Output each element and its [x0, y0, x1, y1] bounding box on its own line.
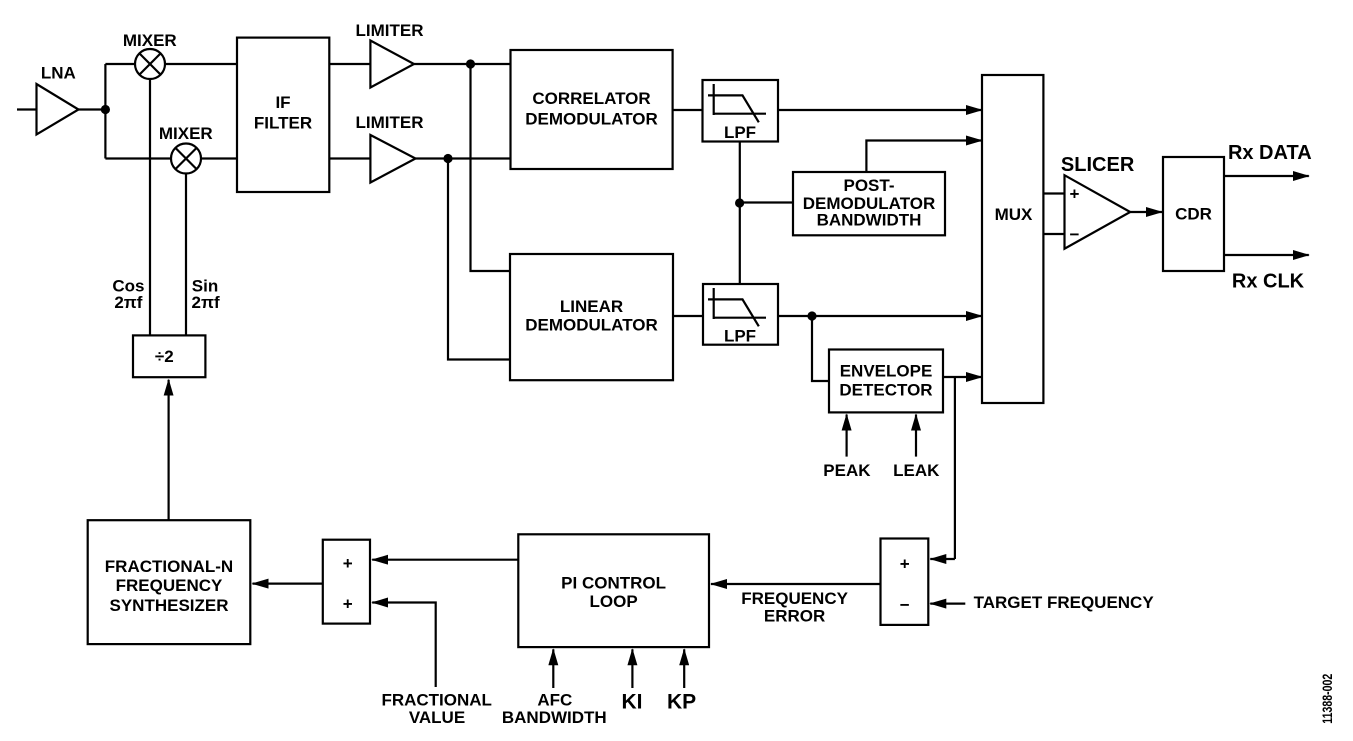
svg-text:BANDWIDTH: BANDWIDTH — [502, 708, 607, 727]
svg-text:2πf: 2πf — [192, 293, 220, 312]
label FRACTIONAL VALUE — [381, 691, 491, 727]
label Rx CLK — [1232, 271, 1305, 293]
block CORRELATOR DEMODULATOR — [511, 50, 673, 169]
wire limiter2 to correlator — [416, 157, 511, 159]
svg-text:AFC: AFC — [537, 691, 572, 710]
wire MUX to slicer minus input — [1043, 233, 1064, 235]
wire envelope detector to MUX — [943, 376, 982, 378]
svg-text:+: + — [1070, 185, 1080, 204]
wire AFC BANDWIDTH input arrow — [552, 649, 554, 688]
wire mixer1 to IF filter — [165, 63, 237, 65]
mixer top (I) — [123, 31, 177, 79]
svg-text:CDR: CDR — [1175, 205, 1212, 224]
svg-text:ENVELOPE: ENVELOPE — [840, 362, 933, 381]
svg-text:11388-002: 11388-002 — [1319, 674, 1335, 724]
wire envelope tap to summer S2 — [930, 558, 955, 560]
block FRACTIONAL-N FREQUENCY SYNTHESIZER — [88, 520, 251, 644]
wire synthesizer to divider — [168, 380, 170, 521]
wire limiter1 to correlator — [414, 63, 511, 65]
label Cos 2pif — [112, 277, 144, 312]
svg-text:FREQUENCY: FREQUENCY — [741, 589, 848, 608]
wire LPF2 to MUX — [778, 315, 982, 317]
svg-text:LIMITER: LIMITER — [356, 21, 424, 40]
svg-text:ERROR: ERROR — [764, 606, 825, 625]
svg-text:PEAK: PEAK — [823, 461, 871, 480]
label TARGET FREQUENCY — [974, 593, 1155, 612]
comparator SLICER — [1061, 154, 1135, 249]
svg-text:CORRELATOR: CORRELATOR — [532, 89, 650, 108]
wire correlator to LPF1 — [673, 109, 703, 111]
wire LPF1 to MUX — [778, 109, 982, 111]
svg-text:+: + — [343, 554, 353, 573]
svg-text:Rx DATA: Rx DATA — [1228, 142, 1312, 164]
wire summer S1 to synthesizer — [253, 582, 323, 584]
wire KP input arrow — [683, 649, 685, 688]
svg-text:IF: IF — [275, 93, 290, 112]
label LEAK — [893, 461, 940, 480]
svg-text:LPF: LPF — [724, 123, 756, 142]
svg-text:÷2: ÷2 — [155, 347, 174, 366]
wire LPF1 bottom to LPF2 top — [739, 142, 741, 285]
svg-text:FILTER: FILTER — [254, 114, 312, 133]
node LPF tap junction — [735, 198, 744, 207]
svg-text:+: + — [343, 595, 353, 614]
svg-text:LOOP: LOOP — [590, 592, 638, 611]
wire to top mixer — [105, 63, 135, 65]
svg-text:KP: KP — [667, 691, 696, 714]
svg-text:−: − — [900, 596, 910, 615]
block ENVELOPE DETECTOR — [829, 350, 943, 413]
svg-text:DEMODULATOR: DEMODULATOR — [525, 109, 658, 128]
label PEAK — [823, 461, 871, 480]
node limiter2 junction — [443, 154, 452, 163]
wire LEAK input arrow — [915, 415, 917, 457]
svg-text:LEAK: LEAK — [893, 461, 940, 480]
svg-text:PI CONTROL: PI CONTROL — [561, 574, 666, 593]
wire mixer1 LO from divider — [149, 79, 151, 335]
label KP — [667, 691, 696, 714]
svg-text:SYNTHESIZER: SYNTHESIZER — [109, 596, 228, 615]
block POST-DEMODULATOR BANDWIDTH — [793, 172, 945, 235]
block LINEAR DEMODULATOR — [510, 254, 673, 380]
label Rx DATA — [1228, 142, 1312, 164]
amplifier LIMITER top — [356, 21, 424, 88]
svg-text:MUX: MUX — [995, 205, 1033, 224]
wire summer S2 to PI control loop — [711, 583, 881, 585]
wire post-demodulator bandwidth to MUX — [866, 141, 982, 173]
svg-text:FREQUENCY: FREQUENCY — [116, 576, 223, 595]
svg-text:DEMODULATOR: DEMODULATOR — [525, 316, 658, 335]
svg-text:−: − — [1070, 225, 1080, 244]
svg-text:Rx CLK: Rx CLK — [1232, 271, 1305, 293]
svg-text:BANDWIDTH: BANDWIDTH — [817, 211, 922, 230]
block divide-by-2 — [133, 335, 205, 377]
svg-text:VALUE: VALUE — [409, 708, 465, 727]
wire limiter1 tap to linear demodulator — [471, 64, 511, 271]
wire Rx DATA output — [1224, 175, 1309, 177]
wire mixer2 to IF filter — [201, 157, 237, 159]
label Sin 2pif — [192, 277, 220, 312]
wire envelope tap down to frequency summer — [954, 377, 956, 559]
svg-text:LNA: LNA — [41, 64, 76, 83]
mixer bottom (Q) — [159, 124, 213, 174]
block PI CONTROL LOOP — [518, 534, 709, 647]
node limiter1 junction — [466, 59, 475, 68]
svg-text:LINEAR: LINEAR — [560, 297, 623, 316]
block IF FILTER — [237, 38, 329, 192]
wire split vertical — [104, 64, 106, 159]
wire limiter2 tap to linear demodulator — [448, 159, 511, 360]
wire fractional value to summer S1 — [372, 603, 436, 688]
svg-text:POST-: POST- — [843, 176, 894, 195]
label FREQUENCY ERROR — [741, 589, 848, 626]
svg-text:TARGET FREQUENCY: TARGET FREQUENCY — [974, 593, 1155, 612]
label figure number 11388-002 — [1319, 674, 1335, 724]
amplifier LIMITER bottom — [356, 113, 424, 183]
svg-text:LPF: LPF — [724, 327, 756, 346]
block MUX — [982, 75, 1043, 403]
svg-text:MIXER: MIXER — [123, 31, 177, 50]
wire TARGET FREQUENCY to summer S2 — [930, 602, 965, 604]
wire linear demodulator to LPF2 — [673, 315, 703, 317]
wire PEAK input arrow — [845, 415, 847, 457]
wire tap to envelope detector — [812, 316, 829, 381]
wire IF filter to limiter1 — [329, 63, 370, 65]
svg-text:2πf: 2πf — [114, 293, 142, 312]
wire LNA output — [79, 108, 106, 110]
wire to bottom mixer — [105, 157, 171, 159]
svg-text:DETECTOR: DETECTOR — [839, 381, 932, 400]
wire RF input — [17, 108, 37, 110]
svg-text:LIMITER: LIMITER — [356, 113, 424, 132]
wire MUX to slicer plus input — [1043, 192, 1064, 194]
block CDR — [1163, 157, 1224, 271]
wire IF filter to limiter2 — [329, 157, 370, 159]
svg-text:FRACTIONAL-N: FRACTIONAL-N — [105, 557, 233, 576]
filter LPF1 — [703, 80, 779, 142]
svg-text:FRACTIONAL: FRACTIONAL — [381, 691, 491, 710]
svg-text:SLICER: SLICER — [1061, 154, 1135, 176]
label KI — [622, 691, 643, 714]
summer S1 — [323, 540, 370, 624]
amplifier LNA — [37, 64, 79, 135]
wire PI control loop to summer S1 — [372, 559, 518, 561]
wire KI input arrow — [631, 649, 633, 688]
svg-text:+: + — [900, 554, 910, 573]
node LNA output junction — [101, 105, 110, 114]
svg-text:MIXER: MIXER — [159, 124, 213, 143]
summer S2 — [881, 539, 929, 625]
wire Rx CLK output — [1224, 254, 1309, 256]
node LPF2 output junction — [807, 311, 816, 320]
label AFC BANDWIDTH — [502, 691, 607, 727]
wire slicer to CDR — [1130, 211, 1162, 213]
wire mixer2 LO from divider — [185, 174, 187, 336]
filter LPF2 — [703, 284, 778, 346]
wire tap to post-demodulator bandwidth — [740, 201, 793, 203]
svg-text:KI: KI — [622, 691, 643, 714]
